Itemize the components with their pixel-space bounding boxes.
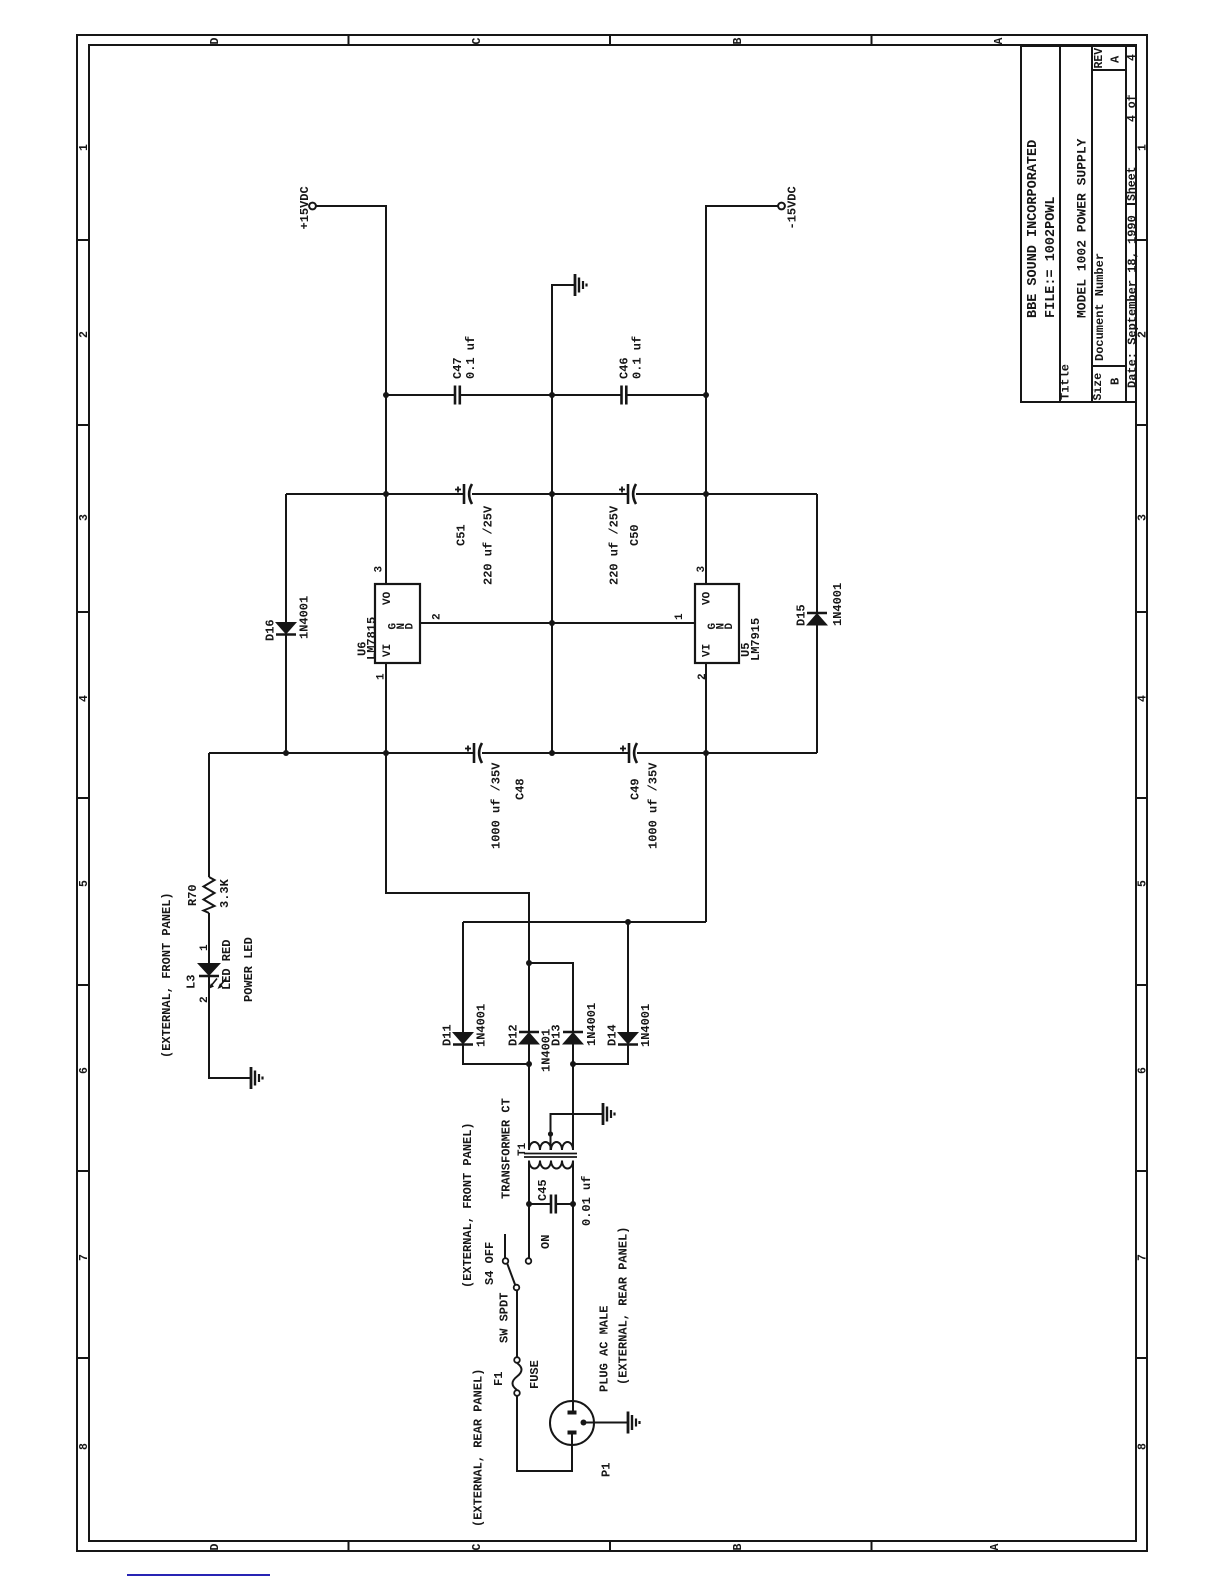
wire jog to D13 — [529, 963, 573, 1032]
svg-text:C50: C50 — [628, 524, 642, 546]
svg-text:(EXTERNAL, REAR PANEL): (EXTERNAL, REAR PANEL) — [471, 1369, 485, 1527]
svg-text:A: A — [989, 1544, 1002, 1551]
wire LED branch top — [208, 753, 210, 877]
ground LED — [251, 1067, 263, 1089]
wire primary left down — [528, 1161, 530, 1259]
op-amp U5 regulator LM7915 body — [695, 584, 739, 663]
wire D15 branch lower — [816, 626, 818, 754]
svg-text:Size: Size — [1092, 373, 1105, 401]
svg-text:VI: VI — [702, 644, 714, 657]
capacitor C50 (electrolytic) — [619, 484, 636, 504]
node junction +15/C51 — [383, 491, 389, 497]
svg-text:C51: C51 — [454, 524, 468, 546]
node -15VDC terminal — [778, 203, 785, 210]
title block — [1021, 46, 1136, 402]
diode D12 — [518, 1032, 540, 1045]
svg-text:1N4001: 1N4001 — [474, 1004, 488, 1047]
wire U6 pin1 VI — [385, 663, 387, 753]
svg-text:5: 5 — [78, 880, 91, 887]
node S4 pole terminal — [514, 1285, 520, 1291]
transformer T1 secondary winding — [529, 1142, 573, 1150]
node +15VDC terminal — [309, 203, 316, 210]
svg-text:1N4001: 1N4001 — [639, 1004, 653, 1047]
svg-text:C46: C46 — [617, 357, 631, 379]
wire R70 to LED — [208, 913, 210, 963]
svg-text:POWER LED: POWER LED — [242, 937, 256, 1002]
node junction -15/C46 — [703, 392, 709, 398]
wire F1 to plug — [517, 1396, 572, 1471]
capacitor C47 — [455, 386, 460, 405]
svg-text:3: 3 — [1137, 514, 1150, 521]
svg-text:A: A — [1108, 55, 1122, 63]
svg-text:D12: D12 — [506, 1024, 520, 1046]
diode D14 — [617, 1032, 639, 1045]
wire -15V vertical rail — [705, 205, 707, 584]
wire minus feed down — [705, 753, 707, 922]
op-amp U6 regulator LM7815 body — [375, 584, 420, 663]
svg-text:A: A — [993, 38, 1006, 45]
wire D16 branch lower — [285, 635, 287, 754]
svg-text:220 uf /25V: 220 uf /25V — [607, 505, 621, 585]
svg-text:C49: C49 — [628, 778, 642, 800]
svg-text:1N4001: 1N4001 — [585, 1003, 599, 1046]
svg-text:0.1 uf: 0.1 uf — [464, 336, 478, 379]
wire D12 bottom — [528, 1045, 530, 1151]
svg-text:VO: VO — [382, 591, 394, 605]
svg-text:D16: D16 — [263, 619, 277, 641]
wire D13 bottom — [572, 1045, 574, 1151]
node F1 top terminal — [514, 1357, 520, 1363]
node junction gnd/C47 row — [549, 392, 555, 398]
wire minus rail horizontal — [463, 921, 706, 923]
svg-text:P1: P1 — [599, 1463, 613, 1477]
svg-text:LED RED: LED RED — [220, 940, 234, 990]
svg-text:0.01 uf: 0.01 uf — [580, 1176, 594, 1226]
wire C51-C50 mid — [472, 493, 628, 495]
svg-text:S4 OFF: S4 OFF — [483, 1242, 497, 1285]
wire C49 row right — [637, 752, 817, 754]
wire D16 branch upper — [285, 494, 287, 622]
svg-text:(EXTERNAL, FRONT PANEL): (EXTERNAL, FRONT PANEL) — [160, 892, 174, 1058]
wire S4 pole to fuse — [516, 1290, 518, 1357]
svg-text:(EXTERNAL, FRONT PANEL): (EXTERNAL, FRONT PANEL) — [461, 1122, 475, 1288]
svg-text:D14: D14 — [605, 1024, 619, 1046]
svg-text:TRANSFORMER CT: TRANSFORMER CT — [499, 1098, 513, 1199]
LED L3 — [197, 963, 226, 989]
diode D15 — [806, 613, 828, 626]
wire ground stem top — [551, 284, 575, 286]
wire U5 pin2 VI — [705, 663, 707, 753]
wire D14 top — [627, 922, 629, 1032]
wire C50 row right — [636, 493, 817, 495]
node junction D11/D12 — [526, 1061, 532, 1067]
pin name GND of U5 — [707, 623, 736, 630]
svg-text:B: B — [1108, 378, 1122, 385]
svg-text:6: 6 — [78, 1067, 91, 1074]
wire C48 row left — [209, 752, 474, 754]
svg-text:VO: VO — [702, 591, 714, 605]
capacitor C48 (electrolytic) — [465, 743, 482, 763]
svg-text:D11: D11 — [440, 1024, 454, 1046]
svg-text:LM7915: LM7915 — [749, 618, 763, 661]
wire C51 row left — [286, 493, 464, 495]
wire P1 ground lead — [586, 1422, 628, 1424]
wire D11 bottom — [463, 1045, 529, 1065]
svg-text:2: 2 — [78, 331, 91, 338]
svg-text:1N4001: 1N4001 — [831, 583, 845, 626]
node junction D14 top — [625, 919, 631, 925]
wire C47 row left — [386, 394, 455, 396]
svg-text:0.1 uf: 0.1 uf — [630, 336, 644, 379]
svg-text:Date: September 18, 1990: Date: September 18, 1990 — [1125, 215, 1139, 388]
svg-text:3: 3 — [696, 566, 708, 573]
pin name GND of U6 — [388, 623, 417, 630]
svg-text:(EXTERNAL, REAR PANEL): (EXTERNAL, REAR PANEL) — [616, 1227, 630, 1385]
node S4 OFF terminal — [503, 1258, 509, 1264]
node junction gnd/C51 row — [549, 491, 555, 497]
svg-text:LM7815: LM7815 — [365, 617, 379, 660]
svg-text:D: D — [209, 38, 222, 45]
svg-text:4: 4 — [1137, 695, 1150, 702]
wire S4 OFF stub — [504, 1234, 506, 1258]
svg-text:B: B — [732, 38, 745, 45]
svg-text:R70: R70 — [186, 884, 200, 906]
fuse F1 — [513, 1363, 522, 1390]
svg-text:BBE SOUND INCORPORATED: BBE SOUND INCORPORATED — [1026, 140, 1041, 318]
svg-text:C: C — [471, 38, 484, 45]
node junction U5-VI/C49 row — [703, 750, 709, 756]
svg-text:Sheet: Sheet — [1126, 166, 1139, 201]
ground center tap — [603, 1103, 615, 1125]
diode D16 — [275, 622, 297, 635]
svg-text:FUSE: FUSE — [528, 1360, 542, 1389]
svg-text:D13: D13 — [549, 1024, 563, 1046]
transformer T1 core — [524, 1154, 577, 1158]
node junction D13/D14 — [570, 1061, 576, 1067]
svg-text:T1: T1 — [517, 1142, 529, 1156]
svg-text:1N4001: 1N4001 — [297, 596, 311, 639]
svg-text:Document Number: Document Number — [1093, 253, 1107, 361]
wire C47-C46 mid — [460, 394, 622, 396]
wire primary right down — [572, 1161, 574, 1205]
wire ON terminal lead — [528, 1204, 530, 1258]
node junction gnd/reg pins — [549, 620, 555, 626]
wire U5 pin1 GND — [552, 622, 695, 624]
svg-text:C47: C47 — [451, 357, 465, 379]
diode D13 — [562, 1032, 584, 1045]
resistor R70 — [204, 877, 215, 913]
svg-text:1: 1 — [674, 613, 686, 620]
svg-text:3: 3 — [78, 514, 91, 521]
svg-text:220 uf /25V: 220 uf /25V — [481, 505, 495, 585]
wire S4 arm — [507, 1264, 515, 1285]
svg-text:1: 1 — [199, 944, 211, 951]
node junction -15/C50 — [703, 491, 709, 497]
node junction U6-VI/C48 row — [383, 750, 389, 756]
node S4 ON terminal — [526, 1258, 532, 1264]
svg-text:C48: C48 — [513, 778, 527, 800]
svg-text:8: 8 — [1137, 1443, 1150, 1450]
wire center tap — [551, 1114, 604, 1150]
svg-text:3: 3 — [374, 566, 386, 573]
svg-text:+15VDC: +15VDC — [298, 186, 312, 229]
wire LED to ground — [209, 976, 251, 1078]
svg-text:7: 7 — [1137, 1254, 1150, 1261]
capacitor C51 (electrolytic) — [455, 484, 472, 504]
svg-text:D15: D15 — [794, 604, 808, 626]
wire ground mid vertical — [551, 284, 553, 753]
wire D14 bottom — [573, 1045, 628, 1065]
svg-text:1: 1 — [1137, 144, 1150, 151]
wire +15VDC to rail — [316, 205, 386, 207]
svg-text:F1: F1 — [492, 1372, 506, 1386]
pin P1 ground pin — [581, 1420, 587, 1426]
svg-text:6: 6 — [1137, 1067, 1150, 1074]
wire D11 top — [462, 922, 464, 1032]
svg-text:FILE:= 1002POWL: FILE:= 1002POWL — [1044, 196, 1059, 318]
svg-text:ON: ON — [539, 1235, 553, 1249]
wire C45 right — [556, 1203, 573, 1205]
svg-text:L3: L3 — [184, 975, 198, 989]
svg-text:SW SPDT: SW SPDT — [497, 1293, 511, 1343]
svg-text:D: D — [209, 1544, 222, 1551]
svg-text:4: 4 — [1126, 54, 1139, 61]
connector P1 body — [550, 1401, 594, 1445]
node junction C45 right — [570, 1201, 576, 1207]
capacitor C49 (electrolytic) — [620, 743, 637, 763]
svg-text:1000 uf /35V: 1000 uf /35V — [489, 762, 503, 849]
svg-text:2: 2 — [432, 613, 444, 620]
svg-text:Title: Title — [1058, 364, 1072, 400]
pin P1 bottom blade — [568, 1431, 577, 1435]
svg-text:7: 7 — [78, 1254, 91, 1261]
capacitor C46 — [622, 386, 627, 405]
ground plug — [628, 1412, 640, 1434]
diode D11 — [452, 1032, 474, 1045]
node junction D16/C48 row — [283, 750, 289, 756]
svg-text:D: D — [724, 623, 736, 630]
svg-text:5: 5 — [1137, 880, 1150, 887]
transformer T1 primary winding — [529, 1161, 573, 1169]
wire +15V vertical rail — [385, 205, 387, 584]
svg-text:-15VDC: -15VDC — [785, 186, 799, 229]
wire C45 left — [529, 1203, 551, 1205]
svg-text:D: D — [405, 623, 417, 630]
svg-text:MODEL 1002 POWER SUPPLY: MODEL 1002 POWER SUPPLY — [1075, 138, 1090, 318]
svg-text:2: 2 — [697, 673, 709, 680]
node junction C45 left — [526, 1201, 532, 1207]
node junction jog to D13 — [526, 960, 532, 966]
svg-text:8: 8 — [78, 1443, 91, 1450]
svg-text:PLUG AC MALE: PLUG AC MALE — [597, 1306, 611, 1392]
wire U6 pin2 GND — [420, 622, 552, 624]
svg-text:REV: REV — [1093, 48, 1106, 69]
node junction +15/C47 — [383, 392, 389, 398]
node F1 bottom terminal — [514, 1390, 520, 1396]
wire C48-C49 mid — [482, 752, 629, 754]
wire plus feed down — [386, 753, 529, 1032]
wire C46 row right — [626, 394, 706, 396]
svg-text:B: B — [732, 1544, 745, 1551]
capacitor C45 — [551, 1195, 556, 1214]
wire -15VDC to rail — [706, 205, 778, 207]
svg-text:4 of: 4 of — [1126, 94, 1139, 122]
svg-text:C: C — [471, 1544, 484, 1551]
wire hot lead to plug — [572, 1204, 574, 1411]
ground top — [575, 274, 587, 296]
svg-text:1000 uf /35V: 1000 uf /35V — [646, 762, 660, 849]
node junction center tap — [548, 1131, 553, 1136]
svg-text:1: 1 — [78, 144, 91, 151]
wire D15 branch upper — [816, 494, 818, 613]
svg-text:C45: C45 — [536, 1179, 550, 1201]
node junction gnd/C48 row — [549, 750, 555, 756]
svg-text:3.3K: 3.3K — [218, 878, 232, 908]
pin P1 top blade — [568, 1411, 577, 1415]
svg-text:VI: VI — [382, 644, 394, 657]
svg-text:4: 4 — [78, 695, 91, 702]
